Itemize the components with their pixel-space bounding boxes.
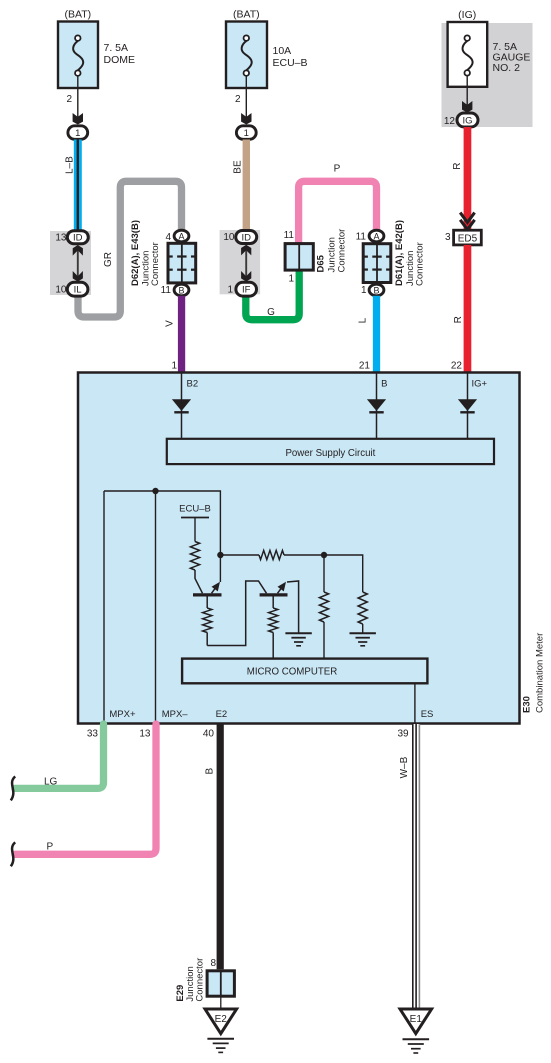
- svg-text:7. 5A: 7. 5A: [104, 42, 129, 54]
- label R upper: [452, 163, 463, 170]
- wire L (blue): [373, 296, 380, 373]
- pin 1 into E30: [171, 361, 177, 372]
- break squiggle P: [11, 842, 15, 866]
- pin 3 of ED5: [445, 232, 451, 243]
- terminal oval 1 (ECU-B): [236, 126, 256, 140]
- terminal IF: [236, 282, 257, 296]
- junction connector D62(A), E43(B): [168, 243, 196, 283]
- label (IG): [458, 9, 476, 21]
- svg-text:11: 11: [284, 230, 295, 241]
- svg-text:(BAT): (BAT): [64, 9, 91, 21]
- ECU-B supply bar: [181, 517, 209, 519]
- svg-text:G: G: [267, 307, 275, 318]
- value 7.5A GAUGE NO.2: [493, 41, 531, 74]
- terminal ID (second): [236, 231, 257, 244]
- svg-text:B2: B2: [187, 378, 199, 389]
- svg-text:W–B: W–B: [399, 756, 410, 778]
- pin 13 below E30: [139, 728, 151, 739]
- svg-text:ECU–B: ECU–B: [179, 504, 211, 515]
- ground triangle E2: [205, 1009, 237, 1034]
- svg-text:2: 2: [235, 94, 241, 105]
- svg-text:E30: E30: [521, 696, 532, 713]
- wire top rail: [104, 491, 220, 555]
- wire node2 to R6: [324, 555, 363, 592]
- svg-text:21: 21: [359, 361, 371, 372]
- svg-text:11: 11: [161, 285, 172, 296]
- connector ED5: [454, 230, 482, 245]
- svg-text:10: 10: [223, 232, 235, 243]
- diode B2: [172, 399, 191, 412]
- wire BE: [243, 140, 250, 231]
- svg-text:R: R: [453, 316, 464, 323]
- wire ECU-B to resistor: [194, 518, 196, 542]
- ground R6: [350, 633, 376, 646]
- svg-text:(IG): (IG): [458, 9, 476, 21]
- label BE: [232, 160, 243, 174]
- value 7.5A DOME: [104, 42, 136, 66]
- svg-text:1: 1: [171, 361, 177, 372]
- pin 1 of D65: [288, 273, 294, 284]
- svg-text:A: A: [373, 231, 379, 241]
- svg-text:MICRO COMPUTER: MICRO COMPUTER: [247, 667, 337, 678]
- label P: [334, 164, 341, 175]
- micro computer box: [182, 659, 427, 684]
- svg-text:ES: ES: [421, 709, 434, 720]
- svg-text:L: L: [357, 317, 368, 323]
- label B wire: [205, 768, 216, 775]
- svg-text:22: 22: [451, 361, 463, 372]
- pin 1 of D61: [361, 285, 367, 296]
- connector block ID/IF: [220, 230, 261, 294]
- label (BAT) for DOME fuse: [64, 9, 91, 21]
- resistor R1 (ECU-B): [190, 542, 199, 571]
- wire B (black): [217, 724, 224, 969]
- terminal B of D62: [174, 284, 189, 296]
- svg-text:GR: GR: [103, 252, 114, 267]
- pin 11 of D62: [161, 285, 172, 296]
- collector lead Q1: [195, 570, 203, 593]
- label MPX+: [109, 709, 136, 720]
- svg-text:BE: BE: [232, 160, 243, 174]
- pin 12: [444, 116, 456, 127]
- label B: [381, 378, 387, 389]
- wire node1 to node2: [220, 554, 259, 556]
- wire G (green): [246, 270, 299, 320]
- pin 21 into E30: [359, 361, 371, 372]
- pin 8 of E29: [210, 958, 216, 969]
- svg-text:B: B: [205, 768, 216, 775]
- pin 2 of DOME fuse: [66, 94, 72, 105]
- wire P lower (pink): [15, 724, 156, 854]
- resistor R4 (horizontal): [259, 550, 284, 559]
- label L: [357, 317, 368, 323]
- svg-text:V: V: [164, 320, 175, 327]
- wire R upper: [464, 127, 472, 231]
- fuse 7.5A GAUGE NO.2: [448, 22, 488, 87]
- arrow into terminal 1 (ECU-B): [241, 113, 251, 125]
- pin 22 into E30: [451, 361, 463, 372]
- label GR: [103, 252, 114, 267]
- svg-text:12: 12: [444, 116, 456, 127]
- label E29 Junction Connector: [175, 958, 206, 1002]
- label E30 Combination Meter: [521, 633, 545, 713]
- power source panel (IG): [442, 23, 533, 127]
- svg-text:MPX+: MPX+: [109, 709, 136, 720]
- label R lower: [453, 316, 464, 323]
- label MPX-: [162, 709, 189, 720]
- label IG+: [472, 378, 488, 389]
- svg-text:1: 1: [361, 285, 367, 296]
- svg-text:B: B: [178, 285, 184, 295]
- svg-text:13: 13: [55, 233, 67, 244]
- svg-text:D65: D65: [315, 254, 326, 272]
- svg-text:IG: IG: [462, 115, 472, 126]
- label ES pin: [421, 709, 434, 720]
- wire R lower: [464, 245, 472, 372]
- svg-text:E1: E1: [410, 1014, 423, 1025]
- wire W-B: [412, 724, 420, 1009]
- svg-text:D62(A), E43(B): D62(A), E43(B): [130, 220, 141, 286]
- svg-text:R: R: [452, 163, 463, 170]
- label W-B: [399, 756, 410, 778]
- label E2 pin: [216, 709, 228, 720]
- label L-B: [64, 156, 75, 174]
- resistor R2 (Q1 base): [203, 597, 212, 646]
- junction dot node1: [217, 552, 223, 558]
- svg-text:IF: IF: [242, 285, 251, 296]
- svg-text:1: 1: [75, 128, 80, 139]
- svg-text:39: 39: [397, 728, 409, 739]
- label V: [164, 320, 175, 327]
- diode IG+: [458, 399, 477, 412]
- svg-text:Connector: Connector: [150, 242, 161, 286]
- svg-text:Connector: Connector: [336, 229, 347, 273]
- terminal B of D61: [369, 284, 384, 296]
- label (BAT) for ECU-B fuse: [233, 9, 260, 21]
- pin 39: [397, 728, 409, 739]
- wire Q2 emitter to ground: [287, 581, 299, 633]
- label D61(A), E42(B) Junction Connector: [394, 220, 426, 286]
- double chevron into ED5: [460, 213, 474, 230]
- svg-text:ID: ID: [73, 233, 83, 244]
- svg-text:Connector: Connector: [194, 958, 205, 1002]
- svg-text:ED5: ED5: [458, 233, 478, 244]
- wire node1 to emitter Q1: [219, 555, 221, 582]
- wire pin22 to power supply circuit: [467, 373, 469, 439]
- svg-text:ID: ID: [241, 232, 251, 243]
- wire fuse F1 to terminal: [77, 88, 79, 118]
- svg-text:E2: E2: [215, 1014, 228, 1025]
- double arrow ID-IL: [73, 245, 83, 282]
- svg-text:1: 1: [227, 285, 233, 296]
- fuse 10A ECU-B: [226, 22, 267, 89]
- label B2: [187, 378, 199, 389]
- junction dot node2: [321, 552, 327, 558]
- arrow into terminal IG: [462, 101, 472, 113]
- svg-text:IL: IL: [74, 285, 82, 296]
- pin 10 of ID/IF: [223, 232, 235, 243]
- svg-text:LG: LG: [44, 777, 58, 788]
- terminal ID: [67, 231, 88, 244]
- ground triangle E1: [400, 1009, 432, 1034]
- svg-text:DOME: DOME: [104, 54, 136, 66]
- svg-text:33: 33: [87, 728, 99, 739]
- svg-text:Power Supply Circuit: Power Supply Circuit: [285, 448, 375, 459]
- terminal oval IG: [457, 113, 478, 127]
- svg-text:10: 10: [55, 285, 67, 296]
- svg-text:40: 40: [203, 728, 215, 739]
- svg-text:11: 11: [356, 231, 367, 242]
- svg-text:2: 2: [66, 94, 72, 105]
- svg-text:B: B: [381, 378, 387, 389]
- junction dot MPX- rail: [152, 488, 158, 494]
- label D65 Junction Connector: [315, 229, 347, 273]
- ground lines E2: [207, 1039, 234, 1053]
- wire L-B: [74, 140, 82, 232]
- svg-text:IG+: IG+: [472, 378, 488, 389]
- svg-text:Combination Meter: Combination Meter: [534, 633, 545, 713]
- pin 13: [55, 233, 67, 244]
- label LG: [44, 777, 58, 788]
- wire MPX- internal: [155, 491, 157, 723]
- svg-text:13: 13: [139, 728, 151, 739]
- pin 11 of D65: [284, 230, 295, 241]
- svg-text:P: P: [334, 164, 341, 175]
- svg-text:3: 3: [445, 232, 451, 243]
- svg-text:Connector: Connector: [415, 242, 426, 286]
- svg-text:4: 4: [165, 232, 171, 243]
- wire MPX+ internal: [103, 491, 105, 723]
- double arrow ID-IF: [241, 245, 251, 282]
- wire pin21 to power supply circuit: [376, 373, 378, 439]
- break squiggle LG: [11, 776, 15, 800]
- pin 10: [55, 285, 67, 296]
- svg-text:(BAT): (BAT): [233, 9, 260, 21]
- ground Q2 emitter: [285, 633, 311, 646]
- junction connector E29: [207, 971, 234, 996]
- diode B: [367, 399, 386, 412]
- ground lines E1: [403, 1039, 430, 1053]
- pin 33: [87, 728, 99, 739]
- terminal A of D62: [174, 230, 189, 242]
- svg-text:10A: 10A: [273, 45, 292, 57]
- pin 4 of D62: [165, 232, 171, 243]
- pin 1 of ID/IF: [227, 285, 233, 296]
- pin 40: [203, 728, 215, 739]
- wire P (pink): [299, 181, 377, 244]
- arrow into terminal 1 (DOME): [73, 113, 83, 125]
- wire ES internal: [414, 683, 416, 723]
- pin 2 of ECU-B fuse: [235, 94, 241, 105]
- terminal A of D61: [369, 230, 384, 242]
- wire fuse F3 to terminal: [466, 87, 468, 106]
- wire E29 to ground E2: [220, 996, 222, 1009]
- svg-text:D61(A), E42(B): D61(A), E42(B): [394, 220, 405, 286]
- svg-text:ECU–B: ECU–B: [273, 57, 308, 69]
- resistor R5 (node2 to micro computer): [319, 555, 328, 659]
- svg-text:MPX–: MPX–: [162, 709, 189, 720]
- svg-text:8: 8: [210, 958, 216, 969]
- label P lower: [47, 841, 54, 852]
- label ECU-B: [179, 504, 211, 515]
- transistor Q1: [193, 582, 222, 595]
- pin 11 of D61: [356, 231, 367, 242]
- svg-text:1: 1: [288, 273, 294, 284]
- wire resistor R4 to node2: [284, 554, 324, 556]
- terminal oval 1 (DOME): [68, 126, 88, 140]
- wire LG: [15, 724, 104, 788]
- terminal IL: [67, 282, 88, 296]
- fuse 7.5A DOME: [58, 22, 98, 89]
- svg-text:P: P: [47, 841, 54, 852]
- wire fuse F2 to terminal: [245, 88, 247, 118]
- svg-text:NO. 2: NO. 2: [493, 62, 521, 74]
- transistor Q2: [260, 582, 288, 595]
- connector block ID/IL: [50, 231, 91, 295]
- svg-text:A: A: [178, 231, 184, 241]
- wire V (violet): [178, 296, 185, 373]
- power supply circuit box: [167, 439, 494, 464]
- resistor R3 (Q2 base): [269, 597, 278, 659]
- wire pin1 to power supply circuit: [181, 373, 183, 439]
- svg-text:L–B: L–B: [64, 156, 75, 174]
- value 10A ECU-B: [273, 45, 308, 69]
- label D62(A), E43(B) Junction Connector: [130, 220, 161, 286]
- svg-text:E2: E2: [216, 709, 228, 720]
- junction connector D65: [285, 244, 313, 271]
- E30 combination meter box: [78, 373, 520, 724]
- resistor R6 (to ground): [358, 592, 367, 633]
- svg-text:B: B: [373, 285, 379, 295]
- wire Q1 base to Q2 collector: [207, 581, 266, 646]
- wire GR: [78, 181, 182, 317]
- svg-text:1: 1: [244, 128, 249, 139]
- junction connector D61(A), E42(B): [363, 244, 391, 283]
- label G: [267, 307, 275, 318]
